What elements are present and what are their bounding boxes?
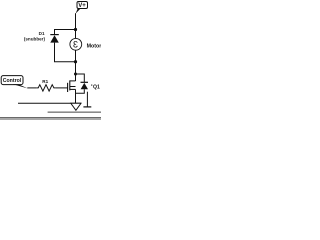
svg-text:V+: V+ (78, 3, 86, 9)
body diode branch wires (76, 74, 85, 82)
svg-text:Motor: Motor (87, 43, 101, 49)
bottom border line (0, 117, 101, 119)
channel bar (69, 80, 71, 90)
source stub (70, 88, 76, 90)
ground triangle (71, 103, 81, 110)
label Q1 (91, 85, 92, 86)
transistor Q1 MOSFET (68, 80, 76, 92)
wire V+ to motor (75, 13, 77, 39)
net flag V+ (76, 2, 88, 14)
drain stub (70, 80, 76, 82)
source wire to ground (75, 89, 77, 103)
body diode of Q1 (81, 82, 89, 89)
stub wire right (86, 92, 88, 107)
svg-text:Q1: Q1 (93, 84, 100, 90)
wire top branch to D1 (55, 30, 76, 35)
svg-text:D1: D1 (39, 31, 45, 36)
wire D1 to bottom branch (55, 43, 76, 62)
diode D1 (50, 35, 59, 43)
wire control to R1 (27, 87, 36, 89)
junction J2 (74, 60, 77, 63)
gate wire (55, 87, 67, 89)
svg-text:3: 3 (73, 40, 78, 50)
body stub (70, 86, 76, 88)
svg-text:R1: R1 (42, 79, 48, 84)
junction J1 (74, 28, 77, 31)
ground bar right (83, 106, 91, 108)
horizontal rule lower (48, 111, 101, 113)
svg-text:(snubber): (snubber) (24, 37, 46, 42)
resistor R1 (37, 85, 56, 91)
motor M1 (70, 38, 82, 50)
wire motor to drain (75, 50, 77, 81)
junction J3 body-diode tap (74, 73, 77, 76)
net flag Control (1, 76, 27, 89)
ground bus (18, 102, 81, 104)
bottom gray band (0, 118, 101, 120)
gate bar (67, 83, 69, 92)
svg-text:Control: Control (3, 78, 22, 84)
